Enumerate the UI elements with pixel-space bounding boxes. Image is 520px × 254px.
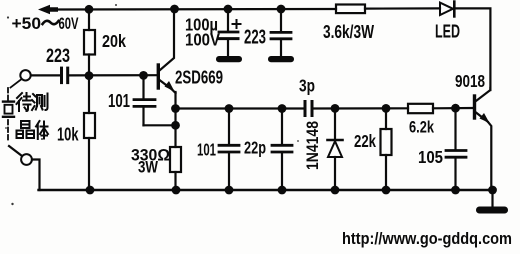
junction bottom rail / 101 lower — [225, 186, 234, 195]
svg-text:223: 223 — [46, 46, 70, 67]
resistor 20k — [84, 11, 95, 76]
junction bottom rail / 1N4148 — [331, 186, 340, 195]
svg-text:3.6k/3W: 3.6k/3W — [323, 22, 374, 42]
svg-text:10k: 10k — [57, 125, 79, 145]
junction base wire / 101 cap — [139, 71, 148, 80]
junction bottom rail / 105 — [451, 186, 460, 195]
junction top rail / 223 cap — [277, 5, 286, 14]
resistor 10k — [84, 76, 95, 190]
capacitor 101 lower — [219, 109, 239, 191]
wire bottom terminal to bottom rail — [32, 160, 40, 191]
wire terminal to 223 cap — [31, 74, 60, 76]
svg-text:100V: 100V — [185, 30, 220, 50]
label 测 — [32, 94, 48, 111]
svg-text:3p: 3p — [299, 76, 315, 96]
junction top rail / 20k — [85, 5, 94, 14]
wire middle rail left — [176, 107, 304, 109]
capacitor 3p — [304, 100, 314, 117]
junction bottom rail / 9018 emitter — [488, 186, 497, 195]
ground 223 — [268, 56, 294, 62]
diode 1N4148 — [328, 109, 343, 191]
crystal under test symbol — [3, 79, 22, 156]
svg-text:22p: 22p — [244, 138, 266, 158]
resistor 3.6k/3W — [336, 5, 365, 14]
capacitor 223 bypass — [271, 11, 291, 56]
junction emitter / middle rail — [171, 104, 180, 113]
capacitor 22p — [272, 109, 292, 191]
wire 6.2k to 9018 base — [433, 107, 473, 110]
junction top rail / 100u cap — [224, 5, 233, 14]
svg-text:http://www.go-gddq.com: http://www.go-gddq.com — [342, 230, 512, 248]
transistor 9018 — [475, 88, 492, 190]
wire emitter to ground — [491, 190, 493, 207]
svg-text:1N4148: 1N4148 — [304, 121, 322, 170]
svg-text:3W: 3W — [138, 159, 158, 177]
junction node / 20k 10k — [85, 71, 94, 80]
node base wire — [70, 74, 158, 76]
label 待 — [17, 93, 31, 111]
wire LED to 9018 collector — [455, 8, 490, 90]
junction bottom rail / 10k — [86, 186, 95, 195]
svg-text:+50: +50 — [12, 15, 42, 33]
svg-text:6.2k: 6.2k — [409, 118, 434, 137]
label 体 — [36, 121, 48, 139]
junction bottom rail / 22p — [278, 186, 287, 195]
svg-text:LED: LED — [435, 22, 460, 42]
capacitor 101 upper — [134, 75, 176, 125]
svg-text:22k: 22k — [354, 131, 376, 151]
label +50~60V — [12, 15, 79, 33]
terminal input top — [20, 70, 30, 80]
wire bottom rail — [39, 189, 493, 191]
svg-text:9018: 9018 — [455, 71, 485, 91]
diode LED — [440, 2, 454, 17]
scan speckles — [5, 4, 299, 205]
junction emitter / 101 return — [171, 121, 180, 130]
wire top rail resistor to LED — [365, 7, 440, 9]
junction top rail / 2SD669 collector — [170, 5, 179, 14]
junction middle rail / 101 lower — [225, 104, 234, 113]
svg-text:60V: 60V — [59, 15, 79, 33]
capacitor 105 — [446, 108, 466, 190]
junction bottom rail / 330 — [172, 186, 181, 195]
svg-text:2SD669: 2SD669 — [175, 68, 223, 88]
resistor 22k — [381, 109, 392, 191]
resistor 330 ohm 3W — [170, 147, 181, 190]
svg-text:20k: 20k — [102, 31, 126, 51]
ground 100u — [216, 56, 242, 62]
terminal input bottom — [21, 154, 32, 165]
wire middle rail right — [314, 107, 409, 109]
capacitor 223 input — [60, 67, 69, 85]
wire 2SD669 emitter vertical — [174, 92, 176, 147]
junction bottom rail / 22k — [382, 186, 391, 195]
capacitor 100u 100V electrolytic — [219, 11, 241, 56]
junction middle rail / 1N4148 — [331, 104, 340, 113]
resistor 6.2k — [408, 104, 433, 113]
junction middle rail / 22k — [382, 104, 391, 113]
ground main — [476, 207, 508, 214]
wire top supply rail left arrow — [38, 5, 336, 14]
svg-text:101: 101 — [197, 140, 216, 160]
junction base wire / 105 — [451, 104, 460, 113]
junction middle rail / 22p — [278, 104, 287, 113]
svg-text:105: 105 — [418, 147, 443, 167]
label 晶 — [17, 121, 35, 138]
transistor 2SD669 — [158, 11, 175, 93]
svg-text:101: 101 — [108, 91, 130, 111]
svg-text:223: 223 — [244, 27, 266, 49]
